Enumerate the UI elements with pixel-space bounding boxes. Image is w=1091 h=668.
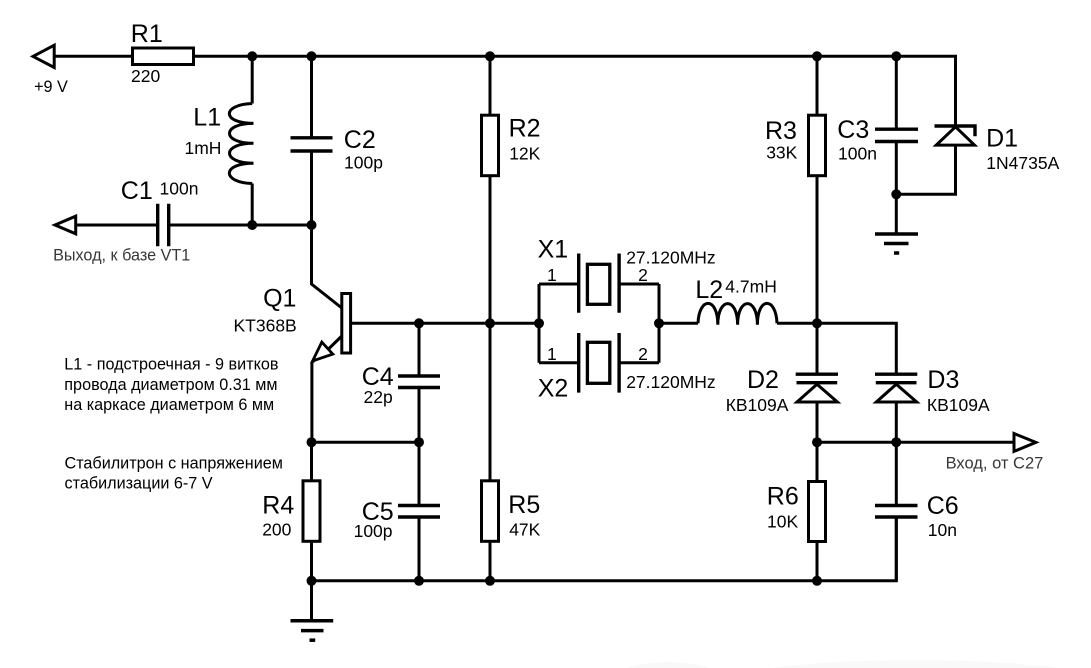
svg-text:2: 2 — [638, 344, 648, 364]
svg-text:стабилизации 6-7 V: стабилизации 6-7 V — [65, 475, 213, 493]
svg-text:на каркасе диаметром 6 мм: на каркасе диаметром 6 мм — [64, 396, 274, 414]
svg-text:X1: X1 — [538, 235, 569, 263]
svg-text:100p: 100p — [344, 153, 383, 173]
svg-text:D1: D1 — [986, 124, 1018, 152]
svg-text:КВ109А: КВ109А — [726, 395, 789, 415]
svg-text:D3: D3 — [927, 366, 959, 394]
svg-text:100n: 100n — [838, 143, 877, 163]
svg-text:Вход, от С27: Вход, от С27 — [946, 455, 1044, 473]
svg-text:+9 V: +9 V — [34, 78, 68, 96]
svg-text:27.120MHz: 27.120MHz — [626, 248, 716, 268]
svg-text:R1: R1 — [131, 20, 163, 48]
svg-text:R6: R6 — [767, 482, 799, 510]
svg-text:1N4735A: 1N4735A — [986, 153, 1059, 173]
svg-text:10K: 10K — [767, 512, 798, 532]
svg-text:C2: C2 — [344, 126, 376, 154]
svg-text:33K: 33K — [766, 143, 797, 163]
svg-text:L1: L1 — [193, 103, 221, 131]
svg-text:200: 200 — [262, 520, 291, 540]
svg-text:C3: C3 — [837, 116, 869, 144]
svg-text:R2: R2 — [509, 115, 541, 143]
svg-text:KT368B: KT368B — [234, 316, 297, 336]
svg-text:КВ109А: КВ109А — [927, 395, 990, 415]
svg-text:10n: 10n — [928, 520, 957, 540]
svg-text:Q1: Q1 — [263, 284, 296, 312]
svg-text:4.7mH: 4.7mH — [725, 276, 777, 296]
svg-text:R5: R5 — [508, 491, 540, 519]
svg-text:2: 2 — [638, 265, 648, 285]
svg-text:1mH: 1mH — [185, 138, 222, 158]
svg-text:L2: L2 — [695, 276, 723, 304]
svg-text:X2: X2 — [538, 375, 569, 403]
svg-text:R3: R3 — [765, 117, 797, 145]
svg-text:27.120MHz: 27.120MHz — [626, 372, 716, 392]
svg-text:1: 1 — [547, 265, 557, 285]
svg-text:100n: 100n — [160, 179, 199, 199]
svg-text:провода диаметром 0.31 мм: провода диаметром 0.31 мм — [64, 376, 277, 394]
svg-text:D2: D2 — [747, 366, 779, 394]
svg-text:L1 - подстроечная - 9 витков: L1 - подстроечная - 9 витков — [64, 356, 278, 374]
svg-text:Стабилитрон с напряжением: Стабилитрон с напряжением — [65, 455, 283, 473]
svg-text:C6: C6 — [927, 492, 959, 520]
svg-text:12K: 12K — [509, 144, 540, 164]
svg-text:220: 220 — [131, 66, 160, 86]
svg-text:C1: C1 — [121, 177, 153, 205]
svg-text:100p: 100p — [354, 521, 393, 541]
svg-text:1: 1 — [547, 344, 557, 364]
svg-text:R4: R4 — [262, 492, 294, 520]
svg-text:Выход, к базе VT1: Выход, к базе VT1 — [53, 247, 190, 265]
svg-text:22p: 22p — [364, 387, 393, 407]
svg-text:47K: 47K — [509, 520, 540, 540]
